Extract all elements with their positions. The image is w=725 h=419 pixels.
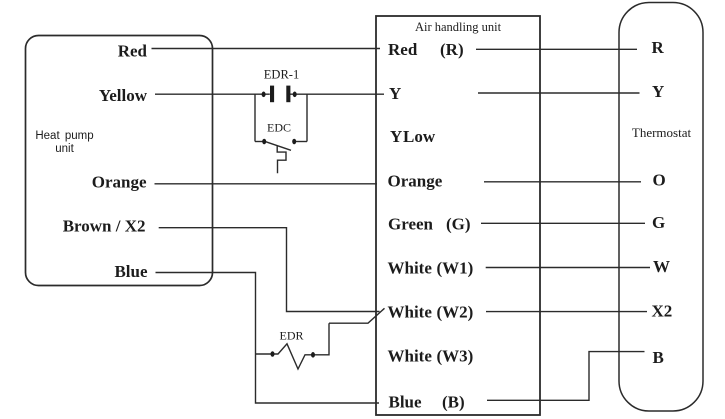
svg-text:(W2): (W2)	[437, 303, 474, 322]
svg-text:Heat pump: Heat pump	[35, 130, 93, 142]
svg-text:EDC: EDC	[267, 121, 291, 135]
svg-text:Orange: Orange	[92, 173, 147, 192]
svg-text:Yellow: Yellow	[99, 86, 148, 105]
svg-text:Low: Low	[403, 127, 436, 146]
svg-text:Green: Green	[388, 215, 434, 234]
svg-text:R: R	[652, 38, 665, 57]
svg-text:O: O	[653, 171, 666, 190]
svg-text:Y: Y	[652, 82, 664, 101]
svg-text:(W3): (W3)	[437, 347, 474, 366]
svg-text:(B): (B)	[442, 393, 465, 412]
svg-text:(W1): (W1)	[437, 259, 474, 278]
svg-text:X2: X2	[652, 302, 673, 321]
svg-text:(R): (R)	[440, 40, 464, 59]
svg-text:White: White	[388, 347, 433, 366]
svg-text:B: B	[653, 348, 664, 367]
svg-text:Blue: Blue	[114, 262, 148, 281]
svg-text:Y: Y	[390, 127, 402, 146]
svg-text:unit: unit	[55, 143, 74, 155]
svg-text:Air handling unit: Air handling unit	[415, 20, 502, 34]
svg-text:Blue: Blue	[389, 393, 423, 412]
svg-text:Y: Y	[389, 84, 401, 103]
svg-text:EDR-1: EDR-1	[264, 68, 299, 82]
svg-text:White: White	[388, 303, 433, 322]
svg-text:Brown / X2: Brown / X2	[63, 217, 146, 236]
svg-text:W: W	[653, 257, 670, 276]
svg-text:(G): (G)	[446, 215, 471, 234]
svg-text:Red: Red	[388, 40, 418, 59]
svg-text:Red: Red	[118, 42, 148, 61]
svg-text:G: G	[652, 213, 665, 232]
svg-text:EDR: EDR	[280, 329, 304, 343]
svg-text:Orange: Orange	[388, 172, 443, 191]
svg-text:White: White	[388, 259, 433, 278]
svg-text:Thermostat: Thermostat	[632, 125, 692, 140]
